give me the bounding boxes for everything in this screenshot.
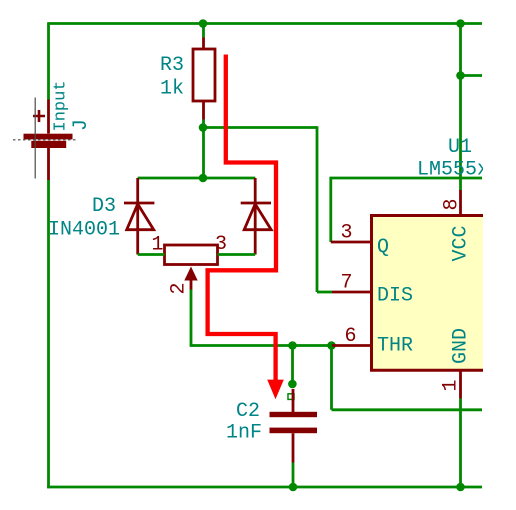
junction VCC stub (456, 71, 465, 80)
svg-text:C2: C2 (236, 400, 260, 423)
op-amp timer U1 body (372, 216, 484, 371)
wire VCC branch vertical (459, 24, 462, 191)
unconnected pin square C2 (288, 394, 294, 400)
wire left rail upper (47, 22, 50, 100)
junction THR / C2 (288, 341, 297, 350)
wire wiper to THR net (191, 290, 332, 346)
capacitor C2 top plate (270, 412, 318, 417)
svg-text:D3: D3 (92, 195, 116, 218)
svg-text:GND: GND (450, 328, 473, 364)
svg-text:1: 1 (440, 379, 463, 391)
U1 pin 6 line (332, 344, 372, 347)
diode D3 cathode bar (124, 202, 154, 205)
junction top rail / VCC branch (456, 19, 465, 28)
U1 pin 1 line (459, 370, 462, 398)
pot wiper arrowhead (184, 267, 197, 281)
wire GND branch horizontal (332, 408, 483, 411)
svg-text:Q: Q (377, 236, 389, 259)
U1 pin 3 line (331, 241, 372, 244)
svg-text:6: 6 (345, 325, 357, 348)
battery plus sign (33, 110, 45, 122)
diode D4 pin line (254, 178, 257, 255)
wire VCC stub (461, 74, 483, 77)
capacitor C2 top pin (292, 389, 295, 412)
junction pin1 / bottom rail (456, 483, 465, 492)
svg-text:3: 3 (341, 222, 353, 245)
diode D4 cathode bar (241, 202, 271, 205)
svg-text:1nF: 1nF (226, 422, 262, 445)
wire DIS net horizontal (203, 126, 317, 129)
battery top plate (24, 134, 73, 140)
svg-text:VCC: VCC (450, 225, 473, 261)
junction diode top node (199, 174, 208, 183)
diode D3 pin line (136, 178, 139, 255)
capacitor C2 bottom plate (270, 428, 318, 434)
battery bottom plate (31, 141, 66, 148)
resistor R3: top green stub (202, 22, 205, 37)
wire top rail VCC (49, 22, 483, 25)
wire C2 to bottom rail (292, 463, 295, 488)
wire Q net (331, 178, 482, 242)
diode D4 triangle (244, 204, 271, 230)
wire pin1 to bottom rail (459, 399, 462, 488)
resistor R3 body (193, 49, 215, 101)
svg-text:LM555xx: LM555xx (417, 159, 501, 182)
dragged wire highlighted path (208, 55, 276, 383)
diode D3 triangle (127, 204, 154, 230)
dragged wire arrowhead (267, 380, 284, 400)
wire R3 bottom to junction (202, 120, 205, 179)
wire bottom rail (47, 486, 482, 489)
wire pot pin3 stub (218, 253, 256, 256)
resistor R3 bottom pin (202, 101, 205, 120)
capacitor C2 bottom pin (292, 433, 295, 462)
junction top rail / R3 (199, 19, 208, 28)
svg-text:U1: U1 (448, 136, 472, 159)
svg-text:IN4001: IN4001 (48, 219, 120, 242)
potentiometer RV body (165, 245, 218, 265)
crosshair vertical line (34, 98, 36, 179)
battery bottom pin (47, 148, 50, 180)
svg-text:THR: THR (377, 335, 413, 358)
svg-text:2: 2 (168, 282, 191, 294)
svg-text:R3: R3 (160, 54, 184, 77)
junction THR / GND branch (327, 341, 336, 350)
wire diode top horizontal (138, 177, 256, 180)
wire DIS net to pin 7 (317, 291, 332, 294)
wire pot pin1 stub (138, 253, 165, 256)
svg-text:1: 1 (152, 234, 164, 257)
svg-text:1k: 1k (160, 78, 184, 101)
crosshair dashed horizontal line (13, 139, 77, 141)
junction R3 bottom / DIS net (199, 123, 208, 132)
wire DIS net vertical (316, 126, 319, 292)
wire end dot above C2 (288, 380, 297, 389)
svg-text:3: 3 (215, 233, 227, 256)
svg-text:DIS: DIS (377, 285, 413, 308)
svg-text:7: 7 (341, 272, 353, 295)
U1 pin 7 line (332, 291, 372, 294)
U1 pin 8 line (459, 190, 462, 216)
svg-text:Input: Input (52, 80, 71, 131)
wire C2 branch vertical (291, 346, 294, 384)
svg-text:J: J (70, 119, 93, 131)
junction C2 / bottom rail (289, 483, 298, 492)
battery BT Input: top pin (47, 100, 50, 134)
wire GND branch vertical (330, 346, 333, 410)
wire left rail lower (47, 180, 50, 489)
svg-text:8: 8 (441, 198, 464, 210)
resistor R3 top pin (202, 38, 205, 50)
pot wiper arrow shaft (190, 279, 193, 290)
